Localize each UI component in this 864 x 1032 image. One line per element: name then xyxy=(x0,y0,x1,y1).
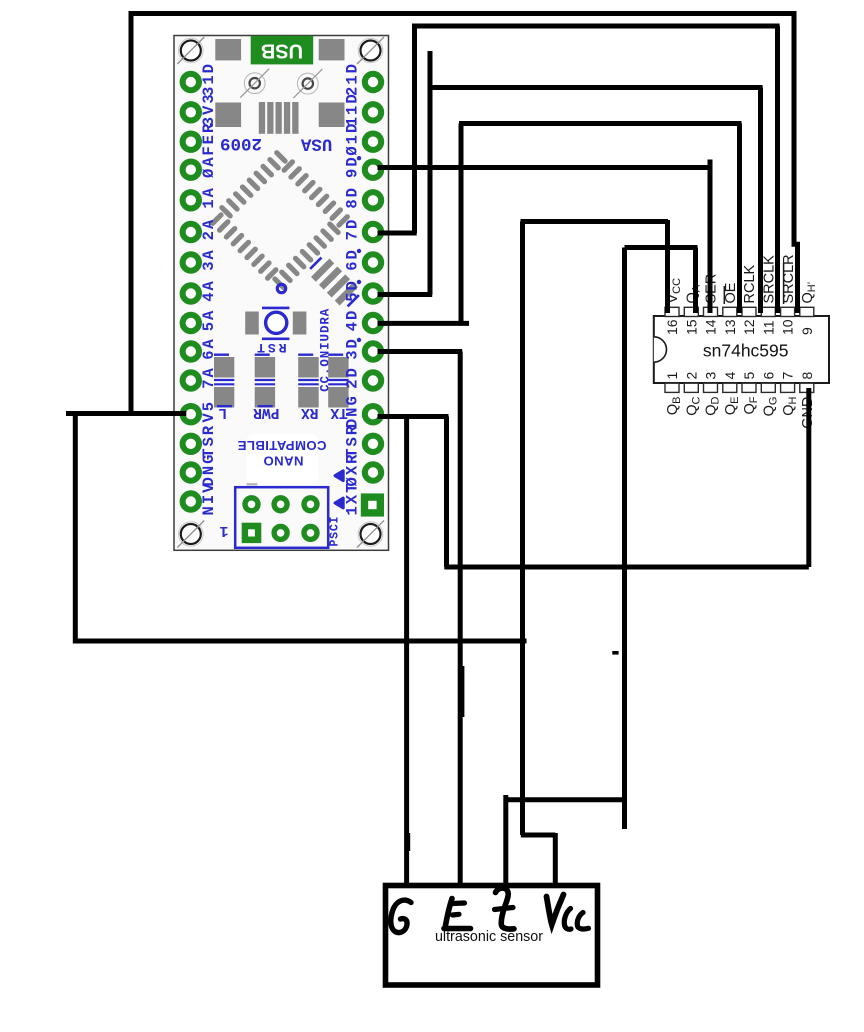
IC pin 6 stub xyxy=(761,383,775,392)
ultrasonic sensor box xyxy=(386,886,598,986)
pin A3 left xyxy=(183,249,218,270)
ICSP pin r1c1 xyxy=(245,498,258,511)
svg-text:D: D xyxy=(343,311,361,320)
pad left row2 xyxy=(215,103,241,128)
pin 3V3 left xyxy=(183,94,218,126)
IC pin 10 stub xyxy=(781,307,795,316)
pin D3 right xyxy=(343,338,381,360)
svg-text:D: D xyxy=(343,94,361,103)
svg-text:RST: RST xyxy=(254,340,286,355)
pin D4 right xyxy=(343,311,381,332)
svg-text:1: 1 xyxy=(343,106,361,115)
svg-text:3: 3 xyxy=(200,261,218,270)
svg-text:1: 1 xyxy=(200,199,218,208)
wire QA pin15 to sensor trigger xyxy=(506,248,698,887)
IC pin 16 stub xyxy=(665,307,679,316)
crystal pads xyxy=(259,102,299,134)
svg-text:A: A xyxy=(200,249,218,259)
svg-text:4: 4 xyxy=(722,372,738,380)
svg-text:6: 6 xyxy=(200,350,218,359)
svg-text:I: I xyxy=(318,342,332,350)
svg-text:1: 1 xyxy=(219,522,228,539)
svg-text:6: 6 xyxy=(760,372,776,380)
svg-text:7: 7 xyxy=(780,372,796,380)
ICSP pin r2c3 xyxy=(304,526,317,539)
svg-text:A: A xyxy=(200,281,218,291)
svg-text:D: D xyxy=(343,368,361,377)
pin 5V left xyxy=(183,402,218,423)
svg-text:N: N xyxy=(343,408,361,417)
wire GND drop to sensor G xyxy=(404,417,409,887)
pin REF left xyxy=(183,123,218,156)
pin RST right xyxy=(343,425,381,458)
svg-text:U: U xyxy=(318,334,332,342)
svg-text:2: 2 xyxy=(343,379,361,388)
svg-text:15: 15 xyxy=(683,319,699,335)
pin D8 right xyxy=(343,188,381,209)
usb shield pad left xyxy=(215,39,241,60)
svg-text:A: A xyxy=(200,368,218,378)
silkscreen dash above ICSP xyxy=(247,483,258,485)
svg-text:10: 10 xyxy=(780,319,796,335)
via 1 xyxy=(240,69,269,98)
svg-text:7: 7 xyxy=(200,379,218,388)
svg-text:12: 12 xyxy=(741,319,757,335)
svg-text:V: V xyxy=(200,412,218,422)
pin D13 left xyxy=(183,64,218,96)
IC pin 1 stub xyxy=(665,383,679,392)
pin VIN left xyxy=(183,483,218,516)
svg-text:COMPATIBLE: COMPATIBLE xyxy=(237,438,326,453)
svg-text:USB: USB xyxy=(261,40,303,62)
svg-text:N: N xyxy=(200,506,218,515)
IC sn74hc595 body xyxy=(654,316,829,383)
svg-text:14: 14 xyxy=(703,319,719,335)
svg-text:C: C xyxy=(329,524,342,531)
svg-text:6: 6 xyxy=(343,261,361,270)
pin A2 left xyxy=(183,219,218,240)
svg-text:V: V xyxy=(200,105,218,115)
svg-text:1: 1 xyxy=(200,75,218,84)
pin D10 right xyxy=(343,124,381,156)
overline for OE xyxy=(723,286,725,304)
IC pin 5 stub xyxy=(742,383,756,392)
diagonal resistor pack xyxy=(307,254,363,310)
svg-text:4: 4 xyxy=(200,292,218,301)
svg-text:9: 9 xyxy=(799,327,815,335)
pin D6 right xyxy=(343,249,381,271)
svg-text:D: D xyxy=(343,124,361,133)
svg-text:A: A xyxy=(318,308,332,316)
pin1 blue dot xyxy=(277,284,285,292)
svg-text:R: R xyxy=(318,317,332,325)
svg-text:I: I xyxy=(329,516,342,523)
svg-text:1: 1 xyxy=(664,372,680,380)
svg-text:R: R xyxy=(343,454,361,464)
svg-text:S: S xyxy=(329,532,342,539)
svg-text:3: 3 xyxy=(200,94,218,103)
arrow mark TX1 xyxy=(335,498,343,508)
svg-text:2: 2 xyxy=(200,231,218,240)
handwritten label T xyxy=(496,888,515,929)
svg-text:9: 9 xyxy=(343,169,361,178)
silkscreen blob xyxy=(246,434,318,484)
IC pin 14 stub xyxy=(704,307,718,316)
handwritten label Vcc xyxy=(547,895,564,925)
svg-text:X: X xyxy=(343,494,361,504)
svg-text:Ø: Ø xyxy=(200,169,218,178)
pin A6 left xyxy=(183,339,218,360)
wire 5V drop on left xyxy=(75,412,526,642)
pin A0 left xyxy=(183,157,218,178)
IC pin 7 stub xyxy=(781,383,795,392)
IC pin 11 stub xyxy=(761,307,775,316)
svg-text:2009: 2009 xyxy=(220,133,262,153)
IC pin 4 stub xyxy=(723,383,737,392)
ICSP label xyxy=(329,516,342,546)
svg-text:2: 2 xyxy=(683,372,699,380)
pin GND left xyxy=(183,455,218,487)
IC pin 15 stub xyxy=(684,307,698,316)
wire 5V vertical trunk xyxy=(520,222,525,836)
svg-text:RX: RX xyxy=(301,404,319,420)
svg-text:ultrasonic sensor: ultrasonic sensor xyxy=(435,929,543,945)
wire 5V rail into pin 5V xyxy=(66,411,186,416)
svg-text:A: A xyxy=(200,187,218,197)
svg-text:USA: USA xyxy=(300,134,332,154)
IC pin 12 stub xyxy=(742,307,756,316)
reset button xyxy=(245,308,306,339)
svg-text:PWR: PWR xyxy=(253,404,279,420)
component pair L xyxy=(214,355,234,408)
svg-text:1: 1 xyxy=(343,135,361,144)
ARDUINO.CC label xyxy=(318,308,332,392)
mounting hole 3 xyxy=(177,521,204,548)
svg-text:16: 16 xyxy=(664,319,680,335)
svg-text:T: T xyxy=(343,484,361,493)
svg-text:X: X xyxy=(343,465,361,475)
svg-text:D: D xyxy=(343,188,361,197)
ICSP pin r2c2 xyxy=(274,526,287,539)
svg-text:8: 8 xyxy=(343,199,361,208)
pin RX0 right xyxy=(343,454,381,487)
wire VCC branch into pin16 xyxy=(521,220,669,313)
svg-text:13: 13 xyxy=(722,319,738,335)
mounting hole 4 xyxy=(357,521,384,548)
pin A5 left xyxy=(183,310,218,331)
svg-text:5: 5 xyxy=(741,372,757,380)
QFP microcontroller footprint U1 xyxy=(206,146,354,294)
mounting hole 1 xyxy=(177,37,204,64)
svg-text:P: P xyxy=(329,540,342,547)
component pair RX xyxy=(298,355,319,408)
pin GND right xyxy=(343,396,381,428)
usb shield pad right xyxy=(319,39,345,60)
svg-text:sn74hc595: sn74hc595 xyxy=(703,341,789,361)
svg-text:G: G xyxy=(200,455,218,464)
overline for SRCLR xyxy=(783,263,785,304)
ICSP pin r1c2 xyxy=(274,498,287,511)
svg-text:3: 3 xyxy=(343,350,361,359)
arduino nano board outline xyxy=(174,36,389,551)
ICSP pin 1 square xyxy=(242,523,262,543)
svg-text:D: D xyxy=(318,325,332,333)
svg-text:3: 3 xyxy=(703,372,719,380)
USB connector label xyxy=(251,36,314,65)
arrow mark RX0 xyxy=(335,471,343,481)
pin A1 left xyxy=(183,187,218,208)
svg-text:R: R xyxy=(200,123,218,133)
svg-text:L: L xyxy=(218,404,227,420)
svg-text:R: R xyxy=(200,425,218,435)
wire 5V riser to SRCLR pin10 xyxy=(131,14,798,414)
svg-text:D: D xyxy=(343,220,361,229)
svg-text:7: 7 xyxy=(343,231,361,240)
ICSP header outline xyxy=(235,487,328,548)
svg-text:Ø: Ø xyxy=(343,146,361,155)
wire stray mark xyxy=(612,651,618,655)
svg-text:D: D xyxy=(343,64,361,73)
pin D2 right xyxy=(343,368,381,389)
svg-text:1: 1 xyxy=(343,506,361,515)
svg-text:N: N xyxy=(200,466,218,475)
pin TX1 right xyxy=(343,484,384,517)
wire GND to IC pin8 xyxy=(444,388,809,567)
svg-text:R: R xyxy=(343,425,361,435)
svg-text:A: A xyxy=(200,339,218,349)
svg-text:G: G xyxy=(343,396,361,405)
IC pin 13 stub xyxy=(723,307,737,316)
wire GND from arduino pin xyxy=(378,414,449,419)
pin D11 right xyxy=(343,94,381,126)
pin A7 left xyxy=(183,368,218,389)
wire D9 to SER pin14 xyxy=(378,160,713,314)
IC pin 2 stub xyxy=(684,383,698,392)
svg-text:A: A xyxy=(200,310,218,320)
svg-text:11: 11 xyxy=(760,320,776,335)
mounting hole 2 xyxy=(357,37,384,64)
pin RST left xyxy=(183,425,218,458)
wire D7 to SRCLK pin11 xyxy=(378,26,780,313)
wire D3 to sensor echo xyxy=(378,352,463,887)
svg-text:D: D xyxy=(200,64,218,73)
wire echo doubled segment xyxy=(461,666,464,717)
wire D4 to OE pin13 xyxy=(378,124,742,324)
handwritten label G xyxy=(391,900,411,932)
pin D5 right xyxy=(343,280,381,302)
component pair TX xyxy=(328,355,348,408)
IC pin 3 stub xyxy=(704,383,718,392)
svg-text:5: 5 xyxy=(200,322,218,331)
svg-text:V: V xyxy=(200,483,218,493)
pin A4 left xyxy=(183,281,218,302)
IC pin 8 stub xyxy=(800,383,814,392)
svg-text:NANO: NANO xyxy=(263,454,303,469)
handwritten label E xyxy=(445,899,452,927)
svg-text:A: A xyxy=(200,157,218,167)
svg-text:I: I xyxy=(200,495,218,504)
IC pin 9 stub xyxy=(800,307,814,316)
wire D5 to RCLK pin12 xyxy=(378,51,763,313)
pin D9 right xyxy=(343,156,381,178)
ICSP pin r1c3 xyxy=(304,498,317,511)
pin D7 right xyxy=(343,220,381,241)
wire sensor Vcc branch xyxy=(521,833,556,886)
component pair PWR xyxy=(255,355,275,408)
pin D12 right xyxy=(343,64,381,96)
pad right row2 xyxy=(319,103,345,128)
svg-text:5: 5 xyxy=(200,402,218,411)
svg-text:5: 5 xyxy=(343,292,361,301)
svg-text:S: S xyxy=(200,437,218,446)
svg-text:F: F xyxy=(200,146,218,155)
svg-text:RCLK: RCLK xyxy=(742,264,758,303)
svg-text:1: 1 xyxy=(343,75,361,84)
svg-text:S: S xyxy=(343,437,361,446)
svg-text:OE: OE xyxy=(723,282,739,303)
wire GND doubled segment xyxy=(407,833,410,851)
svg-text:8: 8 xyxy=(799,372,815,380)
via 2 xyxy=(293,69,322,98)
svg-text:4: 4 xyxy=(343,322,361,331)
svg-text:E: E xyxy=(200,135,218,144)
svg-text:A: A xyxy=(200,219,218,229)
